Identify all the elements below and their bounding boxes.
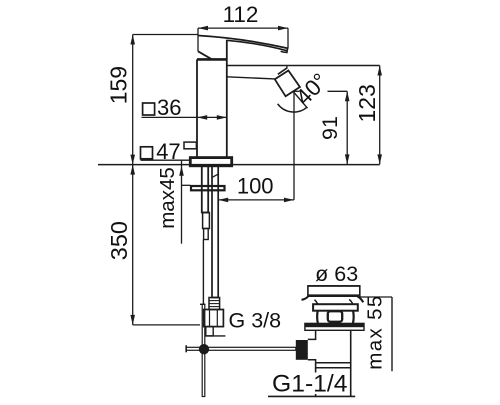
svg-text:max 55: max 55 xyxy=(364,296,387,370)
max45 tick to washer xyxy=(182,184,191,186)
arrow 100 left xyxy=(218,198,228,203)
svg-text:100: 100 xyxy=(237,173,274,198)
dimension 123 line xyxy=(379,66,381,165)
aerator square xyxy=(275,71,300,97)
svg-text:ø 63: ø 63 xyxy=(315,262,358,286)
drain bottom flange black band xyxy=(305,323,364,327)
spout tip xyxy=(281,48,288,52)
rod housing middle xyxy=(203,213,210,229)
blade inner curve xyxy=(227,40,287,50)
washer bar xyxy=(191,186,225,190)
square symbol 36 xyxy=(143,103,155,115)
leader 40 degrees xyxy=(293,92,307,109)
wire extension 350 bottom to hose nut xyxy=(133,324,200,326)
arrow 159 top xyxy=(130,35,135,45)
thread line 2 xyxy=(316,367,351,369)
dimension 350 line xyxy=(132,165,134,325)
rod housing tube upper xyxy=(202,166,208,213)
rod housing lower xyxy=(204,229,209,240)
tailpipe left edge lower xyxy=(315,363,317,397)
arrow 123 top xyxy=(377,66,382,76)
drain neck left xyxy=(315,300,318,305)
dimension dia63 line (cap top) xyxy=(308,285,360,287)
hose tail xyxy=(206,327,213,336)
arrow 159 bottom xyxy=(130,155,135,165)
drain cap right wing xyxy=(358,296,364,302)
body right edge xyxy=(226,40,228,158)
ferrule rib 2 xyxy=(209,303,220,305)
pull rod tick xyxy=(200,303,205,305)
drain top cap xyxy=(308,286,360,296)
section leader 36 xyxy=(142,116,227,118)
aerator chamfer xyxy=(278,68,287,75)
svg-text:123: 123 xyxy=(354,84,380,122)
max55 vertical xyxy=(391,297,393,371)
arrow 91 bottom xyxy=(345,154,350,164)
arrow 91 top xyxy=(345,91,350,101)
label G1-1/4 xyxy=(268,370,349,397)
ferrule rib 1 xyxy=(209,300,220,302)
drain bottom flange outline xyxy=(305,323,364,330)
lever top curve xyxy=(198,36,288,49)
tab on body xyxy=(184,142,196,149)
body left edge xyxy=(196,59,198,157)
dimension 159 line xyxy=(132,35,134,165)
dimension 112 left extension xyxy=(197,28,199,51)
svg-text:G1-1/4: G1-1/4 xyxy=(272,370,348,397)
arrow 123 bottom xyxy=(377,154,382,164)
wire extension line top-left (tap top level) xyxy=(133,34,198,36)
drain cap thick bottom xyxy=(308,294,360,297)
pull rod lower xyxy=(202,304,205,396)
dimension 112 right extension xyxy=(287,28,289,48)
nut facet left xyxy=(209,310,211,327)
counter top line xyxy=(98,164,380,166)
hose ferrule xyxy=(209,298,220,310)
tick under nut xyxy=(205,335,225,337)
arrow 112 right xyxy=(278,26,288,31)
angle arc xyxy=(278,104,307,112)
drain spool right xyxy=(352,311,355,324)
arrow max45 top xyxy=(179,166,184,176)
svg-text:159: 159 xyxy=(106,66,132,104)
pivot dot xyxy=(199,344,209,354)
drain cap left wing xyxy=(302,296,309,300)
horizontal drain rod xyxy=(186,347,296,350)
thread line 1 xyxy=(316,362,351,364)
svg-text:36: 36 xyxy=(157,95,181,120)
drain band xyxy=(313,304,358,311)
dimension 100 line xyxy=(218,199,294,201)
max55 top tick xyxy=(360,296,392,298)
rod end cap xyxy=(185,345,187,352)
base flange xyxy=(190,158,231,166)
square symbol 47 xyxy=(141,147,153,159)
extension 91 top right segment xyxy=(328,90,348,92)
axis line from aerator xyxy=(293,92,295,200)
hose jog xyxy=(213,174,219,177)
hex nut G38 xyxy=(204,310,224,327)
arrow 100 right xyxy=(284,198,294,203)
ferrule rib 3 xyxy=(209,306,220,308)
spout neck bottom line B xyxy=(227,77,275,79)
connector stub top xyxy=(308,330,316,339)
supply hose xyxy=(212,166,218,298)
tailpipe bottom / label underline xyxy=(268,395,355,397)
aerator chamfer connector xyxy=(286,66,289,68)
dimension 112 line xyxy=(198,27,288,29)
drain spool left xyxy=(316,311,319,324)
drain neck right xyxy=(349,299,353,304)
connector stub bottom xyxy=(308,360,316,363)
svg-text:112: 112 xyxy=(223,2,259,27)
svg-text:max45: max45 xyxy=(156,167,179,229)
svg-text:G 3/8: G 3/8 xyxy=(229,308,282,332)
section leader 47 xyxy=(141,159,192,161)
dimension 91 line xyxy=(346,91,348,164)
arrow 112 left xyxy=(198,26,208,31)
extension 91 top left segment xyxy=(294,90,300,92)
arrow 36 left xyxy=(197,115,207,120)
spout neck top line A xyxy=(227,65,380,67)
tailpipe right edge xyxy=(350,330,352,396)
nut facet right xyxy=(216,310,218,327)
lever wedge xyxy=(198,51,211,59)
dimension max45 line xyxy=(181,161,183,244)
black connector block xyxy=(296,340,308,360)
drain window xyxy=(328,311,342,322)
body top edge xyxy=(197,58,227,61)
pull rod thin upper xyxy=(202,240,204,304)
svg-text:350: 350 xyxy=(106,221,132,260)
arrow 350 top xyxy=(130,165,135,175)
arrow 350 bottom xyxy=(130,315,135,325)
svg-text:91: 91 xyxy=(318,116,342,140)
arrow 36 right xyxy=(217,115,227,120)
